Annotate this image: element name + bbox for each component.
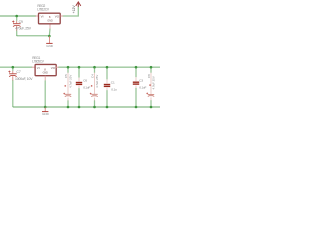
svg-text:GND: GND bbox=[46, 44, 54, 48]
svg-text:4.7uF 25V: 4.7uF 25V bbox=[68, 75, 72, 88]
svg-text:GND: GND bbox=[47, 19, 53, 22]
svg-text:0.1u: 0.1u bbox=[111, 87, 117, 91]
svg-text:VI: VI bbox=[41, 15, 44, 19]
svg-text:C1: C1 bbox=[111, 80, 115, 84]
svg-text:1000uF, 10V: 1000uF, 10V bbox=[15, 77, 33, 81]
svg-text:4.7uF 25V: 4.7uF 25V bbox=[95, 75, 99, 88]
svg-text:C7: C7 bbox=[16, 70, 20, 74]
svg-text:GND: GND bbox=[42, 112, 50, 116]
svg-text:C4: C4 bbox=[90, 74, 94, 78]
svg-text:VI: VI bbox=[37, 66, 40, 70]
svg-text:C3: C3 bbox=[139, 79, 143, 83]
svg-text:VO: VO bbox=[51, 66, 56, 70]
svg-text:C9: C9 bbox=[19, 20, 23, 24]
svg-text:+12V: +12V bbox=[72, 5, 76, 14]
svg-text:GND: GND bbox=[43, 71, 49, 74]
svg-text:C6: C6 bbox=[83, 78, 87, 82]
svg-text:0.1uF: 0.1uF bbox=[139, 86, 146, 90]
svg-text:0.1uF: 0.1uF bbox=[83, 85, 90, 89]
svg-text:L7812CV: L7812CV bbox=[37, 7, 50, 11]
svg-text:L7805CV: L7805CV bbox=[32, 59, 45, 63]
svg-text:VO: VO bbox=[55, 15, 60, 19]
svg-text:4.7uF 25V: 4.7uF 25V bbox=[151, 76, 155, 89]
svg-text:8: 8 bbox=[49, 15, 51, 19]
svg-text:470uF, 25V: 470uF, 25V bbox=[15, 27, 32, 31]
svg-text:C5: C5 bbox=[64, 74, 68, 78]
svg-text:C8: C8 bbox=[147, 74, 151, 78]
